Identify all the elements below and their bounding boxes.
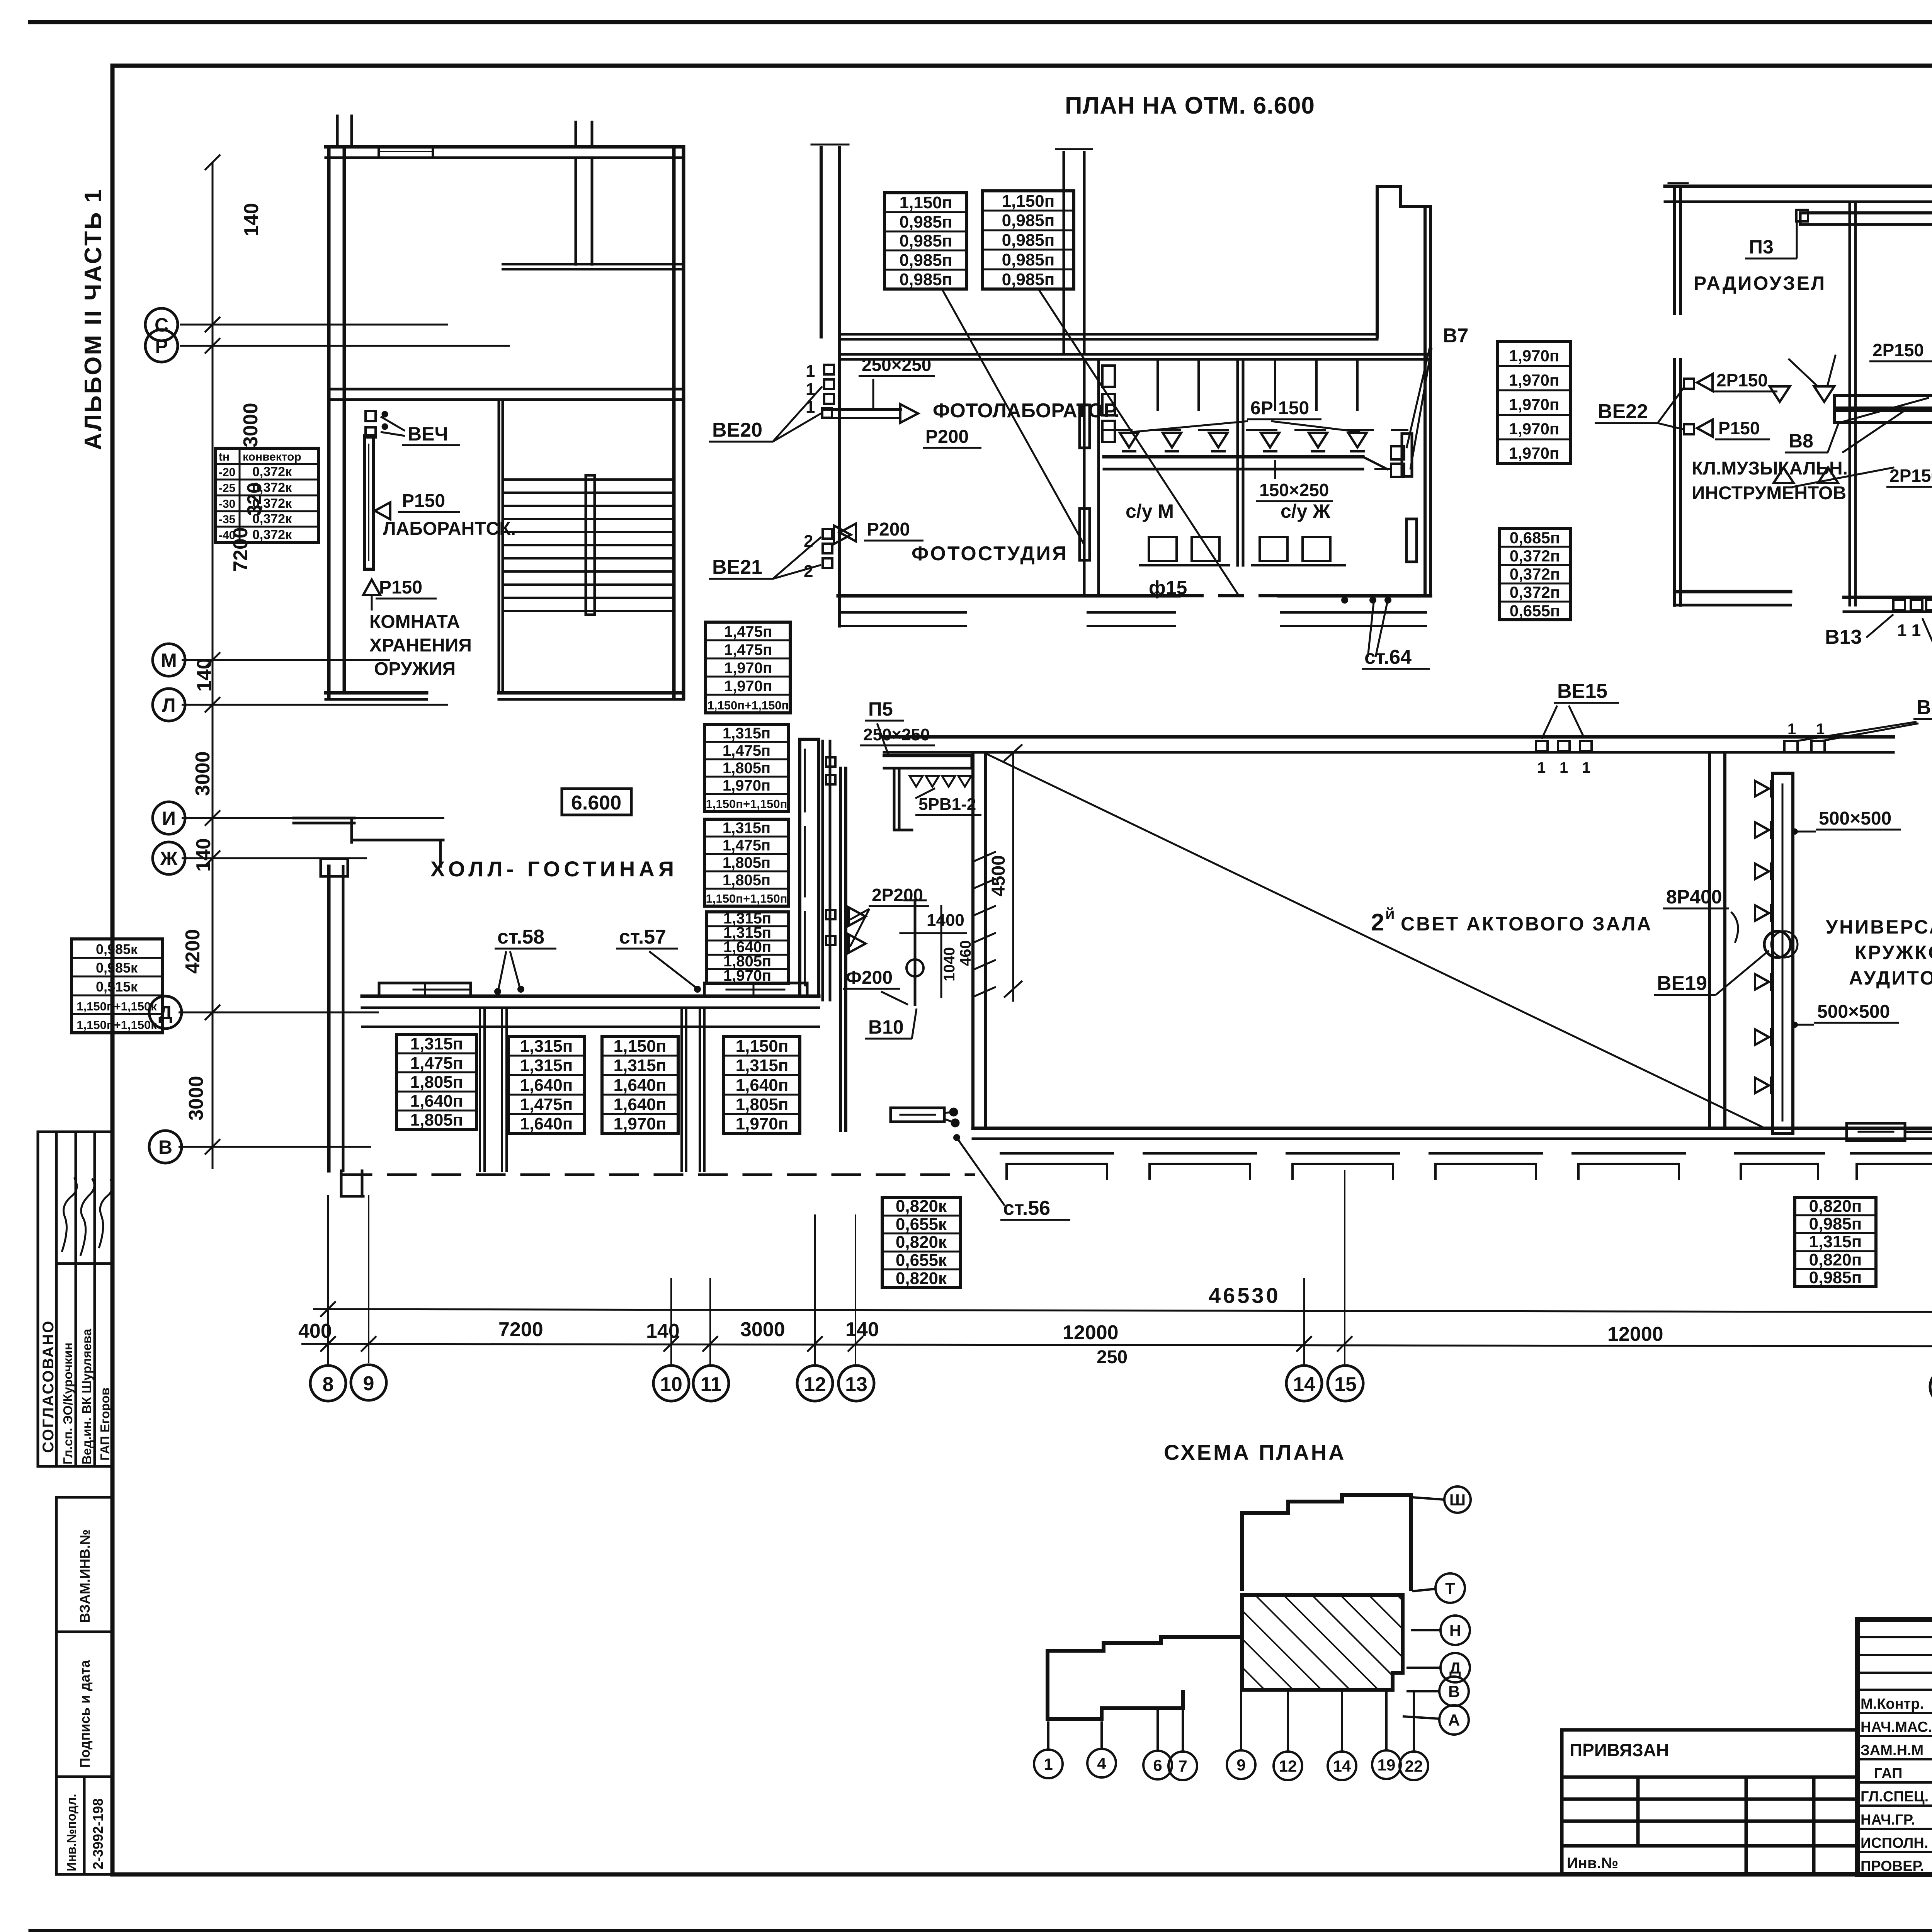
bottom wall of hall (362, 995, 819, 998)
svg-text:-20: -20 (219, 466, 235, 479)
svg-text:0,655п: 0,655п (1510, 602, 1560, 620)
svg-text:7200: 7200 (498, 1318, 543, 1341)
value table t2 (509, 1036, 585, 1133)
svg-text:0,985п: 0,985п (1002, 231, 1055, 250)
svg-text:140: 140 (193, 658, 216, 692)
svg-text:1,150п+1,150п: 1,150п+1,150п (706, 797, 787, 811)
svg-text:А: А (1448, 1711, 1460, 1729)
svg-text:2-3992-198: 2-3992-198 (90, 1798, 106, 1869)
value table s4 (706, 912, 788, 983)
svg-text:140: 140 (845, 1318, 879, 1341)
top right dogleg (1376, 187, 1379, 337)
value table t970 (1498, 342, 1570, 464)
left vertical dimension line (179, 155, 510, 1169)
value table t3 (602, 1036, 678, 1133)
schema left wing outline (1048, 1637, 1242, 1719)
svg-text:0,985п: 0,985п (1002, 211, 1055, 230)
svg-text:1,150п+1,150п: 1,150п+1,150п (706, 892, 787, 905)
B7 squares (1391, 446, 1404, 459)
top wall (1665, 185, 1932, 188)
top wall (326, 145, 684, 149)
svg-text:14: 14 (1293, 1373, 1315, 1396)
corridor walls inside block (329, 388, 684, 391)
stair stringer (586, 475, 595, 615)
svg-text:АЛЬБОМ II ЧАСТЬ 1: АЛЬБОМ II ЧАСТЬ 1 (80, 188, 107, 450)
svg-text:0,820п: 0,820п (1809, 1197, 1862, 1216)
window band under hall (362, 1026, 819, 1028)
svg-text:Р: Р (155, 335, 168, 357)
svg-text:Ж: Ж (160, 848, 178, 869)
P5 duct 250x250 (884, 754, 972, 757)
svg-text:1,315п: 1,315п (520, 1037, 573, 1056)
svg-text:1: 1 (1582, 759, 1590, 776)
svg-text:0,985п: 0,985п (1002, 250, 1055, 269)
svg-text:В8: В8 (1789, 430, 1813, 452)
signer names rows (1861, 1696, 1932, 1874)
svg-text:РАДИОУЗЕЛ: РАДИОУЗЕЛ (1694, 272, 1826, 294)
svg-text:КРУЖКОВАЯ: КРУЖКОВАЯ (1855, 942, 1932, 963)
hatch ticks wall left hall (973, 852, 995, 997)
svg-text:1,640п: 1,640п (520, 1076, 573, 1095)
svg-text:ЗАМ.Н.М: ЗАМ.Н.М (1861, 1742, 1923, 1759)
svg-text:СВЕТ АКТОВОГО ЗАЛА: СВЕТ АКТОВОГО ЗАЛА (1401, 913, 1653, 935)
svg-text:140: 140 (646, 1320, 680, 1342)
radio room partition (1849, 204, 1851, 605)
svg-text:ПРИВЯЗАН: ПРИВЯЗАН (1570, 1740, 1669, 1760)
svg-text:В10: В10 (868, 1016, 904, 1038)
svg-text:4200: 4200 (182, 929, 204, 974)
wall photo-studio / su M (1083, 359, 1086, 596)
svg-text:Инв.№: Инв.№ (1567, 1855, 1618, 1872)
svg-text:Вед.ин. ВК Шурляева: Вед.ин. ВК Шурляева (80, 1328, 94, 1464)
svg-text:ст.57: ст.57 (619, 926, 666, 948)
svg-text:Т: Т (1445, 1579, 1455, 1597)
svg-text:6Р 150: 6Р 150 (1250, 398, 1309, 418)
svg-text:150×250: 150×250 (1259, 480, 1329, 500)
svg-text:В13: В13 (1825, 626, 1862, 648)
svg-text:2Р200: 2Р200 (872, 885, 923, 905)
leaders 2P150 (1789, 359, 1816, 385)
svg-text:9: 9 (363, 1372, 374, 1395)
svg-text:0,985к: 0,985к (96, 941, 138, 957)
svg-text:с/у М: с/у М (1126, 500, 1174, 522)
svg-text:ВЕ21: ВЕ21 (712, 556, 762, 578)
svg-text:0,372п: 0,372п (1510, 565, 1560, 583)
tick slashes on chain (320, 1301, 1932, 1355)
svg-text:1,640п: 1,640п (614, 1095, 667, 1114)
svg-text:0,985п: 0,985п (900, 251, 952, 270)
svg-text:1,970п: 1,970п (1509, 444, 1559, 462)
left axis letter circles (145, 308, 185, 1163)
bottom wall with door gap (326, 691, 427, 695)
svg-text:12000: 12000 (1063, 1321, 1119, 1344)
svg-text:11: 11 (701, 1373, 722, 1396)
svg-text:-35: -35 (219, 513, 235, 526)
svg-text:1,970п: 1,970п (723, 777, 770, 794)
400x400 duct along top (1800, 211, 1932, 214)
svg-text:0,515к: 0,515к (96, 979, 138, 995)
svg-text:0,372к: 0,372к (252, 480, 292, 495)
left part thin rows (1857, 1637, 1932, 1852)
svg-text:2Р150: 2Р150 (1889, 466, 1932, 486)
svg-text:-40: -40 (219, 529, 235, 542)
svg-text:0,985п: 0,985п (900, 213, 952, 231)
svg-text:1,315п: 1,315п (723, 820, 770, 837)
svg-text:1: 1 (1816, 721, 1825, 738)
svg-text:ВЕЧ: ВЕЧ (408, 423, 448, 445)
svg-text:1: 1 (806, 398, 815, 417)
svg-text:7: 7 (1178, 1757, 1187, 1775)
svg-text:460: 460 (957, 940, 974, 966)
dogleg small wall (893, 768, 896, 830)
svg-text:ХОЛЛ- ГОСТИНАЯ: ХОЛЛ- ГОСТИНАЯ (430, 857, 678, 881)
svg-text:-30: -30 (219, 498, 235, 510)
svg-text:Р200: Р200 (925, 427, 969, 447)
svg-text:1,475п: 1,475п (724, 623, 772, 640)
P200 duct from VE20 (822, 408, 900, 411)
privyazan table (1562, 1730, 1857, 1874)
svg-text:140: 140 (240, 203, 263, 236)
axis grid verticals to circles (328, 1155, 1932, 1371)
svg-text:Н: Н (1449, 1621, 1461, 1639)
outer bottom border (30, 1929, 1932, 1932)
value table s3 (704, 819, 788, 906)
radiators on bottom wall (379, 983, 471, 996)
vent dashed line (1102, 429, 1407, 431)
svg-text:250×250: 250×250 (863, 725, 930, 744)
window sills below hall (1001, 1153, 1685, 1179)
svg-text:С: С (155, 314, 168, 336)
svg-text:ст.56: ст.56 (1003, 1197, 1050, 1219)
svg-text:0,372п: 0,372п (1510, 547, 1560, 565)
svg-text:1,315п: 1,315п (520, 1056, 573, 1075)
svg-text:6: 6 (1153, 1756, 1162, 1774)
svg-text:Гл.сп. ЭО/Курочкин: Гл.сп. ЭО/Курочкин (61, 1342, 75, 1464)
svg-text:22: 22 (1405, 1757, 1423, 1775)
svg-text:1,315п: 1,315п (1809, 1232, 1862, 1251)
corridor top wall (839, 333, 1377, 336)
lower stamp column (56, 1497, 112, 1874)
svg-text:КОМНАТА: КОМНАТА (369, 612, 460, 632)
svg-text:500×500: 500×500 (1819, 808, 1891, 829)
svg-text:ИНСТРУМЕНТОВ: ИНСТРУМЕНТОВ (1692, 483, 1846, 503)
svg-text:КЛ.МУЗЫКАЛЬН.: КЛ.МУЗЫКАЛЬН. (1692, 458, 1848, 479)
svg-text:В: В (1448, 1682, 1460, 1701)
svg-text:tн: tн (219, 451, 230, 463)
svg-text:4500: 4500 (988, 855, 1009, 896)
left wall (1673, 186, 1676, 314)
lower stubs (340, 1171, 343, 1196)
svg-text:конвектор: конвектор (243, 451, 301, 463)
vertical dim 4500 line (1012, 753, 1014, 1001)
value table t-left (71, 939, 162, 1033)
svg-text:250×250: 250×250 (862, 355, 931, 375)
svg-text:1,805п: 1,805п (410, 1073, 463, 1092)
svg-text:1,970п: 1,970п (1509, 420, 1559, 438)
svg-text:4: 4 (1097, 1754, 1106, 1772)
svg-text:1,315п: 1,315п (723, 725, 770, 742)
outer top border (30, 20, 1932, 24)
svg-text:ХРАНЕНИЯ: ХРАНЕНИЯ (369, 635, 472, 656)
svg-text:1 1: 1 1 (1897, 621, 1921, 640)
svg-text:ВЕ20: ВЕ20 (712, 419, 762, 441)
svg-text:й: й (1385, 905, 1395, 922)
hall bottom wall (973, 1127, 1932, 1130)
svg-text:1,970п: 1,970п (1509, 371, 1559, 389)
svg-text:400: 400 (298, 1320, 332, 1342)
svg-text:М.Контр.: М.Контр. (1861, 1696, 1924, 1712)
svg-text:Инв.№подл.: Инв.№подл. (64, 1794, 78, 1871)
svg-text:0,820к: 0,820к (896, 1233, 947, 1252)
VE18 squares on stage band (1893, 600, 1905, 610)
svg-text:5РВ1-2: 5РВ1-2 (918, 795, 976, 814)
svg-text:0,985п: 0,985п (900, 231, 952, 250)
vertical pipe with valve (914, 900, 917, 1005)
hall right wall (1708, 752, 1711, 1128)
svg-text:8Р400: 8Р400 (1666, 886, 1722, 908)
svg-text:1,150п+1,150к: 1,150п+1,150к (77, 1018, 157, 1032)
svg-text:1,475п: 1,475п (724, 641, 772, 658)
stall partitions (1156, 359, 1159, 410)
svg-text:ВЕ16: ВЕ16 (1917, 696, 1932, 719)
jog walls at axes I/Zh (294, 817, 354, 820)
svg-text:46530: 46530 (1209, 1283, 1281, 1308)
hall diagonal (987, 754, 1762, 1127)
weapon room riser bar (364, 436, 373, 569)
svg-text:0,985п: 0,985п (900, 270, 952, 289)
svg-text:ф15: ф15 (1149, 577, 1187, 599)
window on top wall (378, 147, 380, 158)
svg-text:1,315п: 1,315п (410, 1034, 463, 1053)
svg-text:1,805п: 1,805п (736, 1095, 789, 1114)
svg-text:0,985п: 0,985п (1809, 1268, 1862, 1287)
svg-text:0,372п: 0,372п (1510, 583, 1560, 601)
svg-text:В7: В7 (1443, 325, 1468, 347)
svg-text:1,315п: 1,315п (736, 1056, 789, 1075)
svg-text:14: 14 (1333, 1757, 1351, 1775)
big circle on duct (1764, 931, 1791, 957)
right radiator stack column of holl (800, 739, 819, 996)
svg-text:3000: 3000 (192, 751, 214, 796)
wall segment right of holl (821, 741, 824, 1000)
svg-text:1,640п: 1,640п (520, 1114, 573, 1133)
heat exchanger unit (1835, 396, 1932, 408)
svg-text:1,805п: 1,805п (723, 854, 770, 871)
svg-text:1,150п+1,150к: 1,150п+1,150к (77, 1000, 157, 1013)
svg-text:1,150п: 1,150п (900, 193, 952, 212)
schema letter circles right (1403, 1486, 1471, 1735)
svg-text:П3: П3 (1749, 236, 1774, 258)
svg-text:1,970п: 1,970п (724, 660, 772, 677)
soglasovano stamp table (38, 1132, 112, 1466)
value table t-mid-bot (882, 1197, 961, 1287)
svg-text:СХЕМА ПЛАНА: СХЕМА ПЛАНА (1164, 1440, 1346, 1464)
VE20 riser squares (824, 365, 834, 374)
svg-text:8: 8 (323, 1373, 334, 1396)
svg-text:Р200: Р200 (867, 519, 910, 540)
VE risers left wall of projection room (826, 757, 835, 767)
bottom dimension chain lines (301, 1309, 1932, 1347)
5RV1-2 triangles (910, 776, 971, 787)
svg-text:Л: Л (162, 694, 175, 716)
window sills below auditorium (1735, 1153, 1932, 1179)
svg-text:ФОТОСТУДИЯ: ФОТОСТУДИЯ (912, 543, 1068, 565)
svg-text:ГЛ.СПЕЦ.: ГЛ.СПЕЦ. (1861, 1789, 1929, 1805)
exchanger triangles (1770, 386, 1838, 483)
svg-text:ст.58: ст.58 (497, 926, 544, 948)
corridor bottom wall (839, 353, 1429, 356)
svg-text:1,640п: 1,640п (410, 1092, 463, 1111)
svg-text:3000: 3000 (240, 403, 262, 447)
schema bottom circles (1034, 1692, 1428, 1780)
top wall window stubs (575, 122, 577, 147)
svg-text:12: 12 (804, 1373, 826, 1396)
svg-text:140: 140 (192, 838, 215, 872)
right wall of stair block (672, 147, 676, 698)
svg-text:1,970п: 1,970п (1509, 395, 1559, 413)
svg-text:0,820п: 0,820п (1809, 1250, 1862, 1269)
toilet boxes (1149, 537, 1177, 561)
svg-text:1: 1 (1537, 759, 1546, 776)
svg-text:0,372к: 0,372к (252, 496, 292, 511)
bottom walls (1675, 590, 1791, 594)
svg-text:П5: П5 (868, 698, 893, 720)
svg-text:0,655к: 0,655к (896, 1215, 947, 1234)
dashed lower boundary (344, 1173, 974, 1176)
svg-text:1,150п: 1,150п (736, 1037, 789, 1056)
svg-text:1,150п: 1,150п (614, 1037, 667, 1056)
svg-text:19: 19 (1378, 1756, 1396, 1774)
hall top wall (884, 735, 1893, 739)
main title block frame (1857, 1619, 1932, 1874)
svg-text:2Р150: 2Р150 (1872, 340, 1924, 360)
schema hatched block (1242, 1595, 1403, 1690)
leader from table to fotostudia duct (943, 291, 1084, 545)
svg-text:0,655к: 0,655к (896, 1251, 947, 1270)
svg-text:3000: 3000 (185, 1076, 207, 1121)
svg-text:ПРОВЕР.: ПРОВЕР. (1861, 1858, 1924, 1874)
bottom radiators (1847, 1123, 1905, 1141)
svg-text:0,685п: 0,685п (1510, 529, 1560, 547)
svg-text:Р150: Р150 (402, 491, 445, 511)
svg-text:0,820к: 0,820к (896, 1269, 947, 1288)
svg-text:1,640п: 1,640п (736, 1076, 789, 1095)
value table t4 (724, 1036, 800, 1133)
svg-text:1,805п: 1,805п (723, 872, 770, 889)
VE16 squares (1784, 741, 1798, 752)
segment dimensions bottom (298, 1318, 1932, 1367)
VECH squares (366, 411, 376, 421)
svg-text:-25: -25 (219, 482, 235, 495)
bottom axis circles 8-22 (310, 1365, 1932, 1406)
svg-text:ВЕ15: ВЕ15 (1557, 680, 1607, 702)
svg-text:1,970п: 1,970п (1509, 347, 1559, 365)
svg-text:1,315п: 1,315п (614, 1056, 667, 1075)
svg-text:2: 2 (1371, 909, 1384, 936)
sills below (1088, 611, 1175, 614)
svg-text:1,475п: 1,475п (520, 1095, 573, 1114)
svg-text:ПЛАН НА ОТМ. 6.600: ПЛАН НА ОТМ. 6.600 (1065, 92, 1315, 119)
svg-text:Д: Д (158, 1002, 172, 1024)
svg-text:1,970п: 1,970п (724, 678, 772, 695)
su M fixtures column (1102, 366, 1115, 387)
leader from table to su duct (1039, 291, 1238, 595)
svg-text:2: 2 (804, 562, 813, 581)
svg-text:В: В (158, 1136, 172, 1158)
left exterior wall lower (327, 866, 331, 1171)
value table t-top-1 (884, 193, 967, 289)
svg-text:0,372к: 0,372к (252, 464, 292, 479)
svg-text:1,150п: 1,150п (1002, 192, 1055, 211)
value table t-bot-1 (1795, 1197, 1876, 1287)
svg-text:2Р150: 2Р150 (1716, 370, 1768, 390)
6.600 level mark (562, 789, 631, 815)
wall su M / su Zh (1236, 359, 1239, 565)
svg-text:НАЧ.МАС.: НАЧ.МАС. (1861, 1719, 1932, 1735)
value table t1 (396, 1034, 476, 1129)
svg-text:Р150: Р150 (379, 577, 422, 598)
VE21 riser squares (823, 529, 832, 539)
svg-text:ОРУЖИЯ: ОРУЖИЯ (374, 659, 456, 679)
svg-text:0,985к: 0,985к (96, 960, 138, 976)
svg-text:Подпись и дата: Подпись и дата (77, 1660, 93, 1768)
upper shaft wall (1063, 152, 1065, 354)
dim line 1400 (900, 932, 966, 934)
left exterior wall (327, 147, 331, 698)
hall left wall (971, 752, 975, 1128)
value table t-0685 (1499, 529, 1570, 620)
svg-text:ГАП Егоров: ГАП Егоров (98, 1388, 112, 1461)
svg-text:3000: 3000 (740, 1318, 785, 1341)
schema upper block outline (1242, 1495, 1411, 1591)
left wall (820, 147, 823, 337)
signatures squiggles (62, 1177, 112, 1256)
interior wall below window (575, 158, 577, 264)
svg-text:ГАП: ГАП (1874, 1765, 1902, 1782)
svg-text:УНИВЕРСАЛЬНАЯ: УНИВЕРСАЛЬНАЯ (1826, 916, 1932, 938)
svg-text:0,985п: 0,985п (1002, 270, 1055, 289)
svg-text:12000: 12000 (1607, 1323, 1663, 1345)
svg-text:1400: 1400 (927, 911, 964, 930)
svg-text:0,372к: 0,372к (252, 527, 292, 542)
svg-text:НАЧ.ГР.: НАЧ.ГР. (1861, 1812, 1915, 1828)
VE15 squares on hall top wall (1536, 741, 1548, 751)
svg-text:9: 9 (1236, 1756, 1245, 1774)
svg-text:1,640п: 1,640п (614, 1076, 667, 1095)
svg-text:ФОТОЛАБОРАТОР.: ФОТОЛАБОРАТОР. (933, 400, 1120, 422)
svg-text:1,475п: 1,475п (723, 837, 770, 854)
value table convector (216, 448, 318, 543)
value table t-top-2 (983, 191, 1074, 289)
duct column left (1772, 773, 1793, 1134)
svg-text:ст.64: ст.64 (1364, 646, 1412, 668)
svg-text:1: 1 (806, 380, 815, 399)
duct 150x250 (1104, 455, 1363, 459)
svg-text:1: 1 (806, 362, 815, 381)
svg-text:Ш: Ш (1449, 1491, 1466, 1509)
radiator at bottom of projection room (891, 1108, 944, 1122)
svg-text:1,150п+1,150п: 1,150п+1,150п (707, 699, 789, 712)
svg-text:ИСПОЛН.: ИСПОЛН. (1861, 1835, 1928, 1851)
svg-text:10: 10 (660, 1373, 682, 1396)
svg-text:500×500: 500×500 (1817, 1002, 1890, 1022)
svg-text:1: 1 (1560, 759, 1568, 776)
svg-text:1: 1 (1787, 721, 1796, 738)
svg-text:1,805п: 1,805п (410, 1111, 463, 1129)
colonnade piers (479, 1008, 481, 1171)
svg-text:0,820к: 0,820к (896, 1197, 947, 1216)
diffuser triangles (1755, 781, 1771, 1093)
